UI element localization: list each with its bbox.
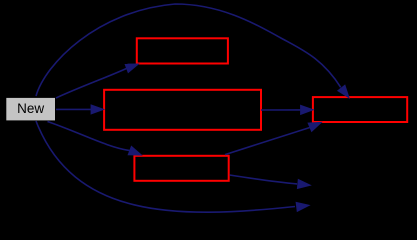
svg-text:New: New — [17, 101, 44, 116]
